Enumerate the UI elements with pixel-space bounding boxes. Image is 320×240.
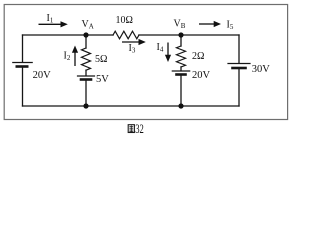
svg-text:I5: I5 [227, 20, 234, 32]
svg-text:5V: 5V [96, 74, 109, 85]
svg-text:I2: I2 [64, 51, 71, 63]
svg-text:I4: I4 [157, 42, 164, 54]
svg-text:30V: 30V [252, 64, 270, 75]
svg-text:20V: 20V [192, 70, 211, 81]
svg-text:10Ω: 10Ω [116, 15, 133, 26]
svg-text:2Ω: 2Ω [192, 51, 204, 62]
svg-text:20V: 20V [33, 70, 52, 81]
svg-text:VA: VA [82, 19, 94, 31]
svg-text:I3: I3 [129, 43, 136, 55]
svg-text:32: 32 [135, 122, 144, 136]
svg-text:VB: VB [174, 19, 186, 31]
svg-text:5Ω: 5Ω [95, 54, 107, 65]
svg-text:I1: I1 [47, 13, 54, 25]
